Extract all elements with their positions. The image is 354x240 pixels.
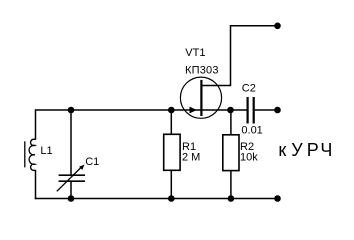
- wire: bottom ground rail: [35, 198, 278, 200]
- node: junction source / R2 / C2: [227, 107, 234, 114]
- terminal: mid output: [274, 107, 281, 114]
- terminal: top output: [274, 23, 281, 30]
- node: junction C1 bottom: [68, 195, 75, 202]
- wire: C1 branch upper: [70, 110, 72, 175]
- node: junction R2 bottom: [228, 195, 235, 202]
- wire: junction to C2: [231, 109, 247, 111]
- wire: left vertical, bottom segment: [35, 170, 37, 199]
- wire: C1 branch lower: [70, 181, 72, 198]
- svg-text:C1: C1: [85, 156, 99, 168]
- svg-text:10k: 10k: [240, 151, 258, 163]
- inductor L1: [25, 139, 36, 170]
- wire: drain lead to top output: [201, 26, 277, 86]
- capacitor C1 (variable): [57, 165, 85, 192]
- svg-text:2 M: 2 M: [182, 151, 200, 163]
- node: junction R1 top: [168, 107, 175, 114]
- svg-text:L1: L1: [40, 145, 52, 157]
- wire: C2 to mid output: [255, 109, 278, 111]
- svg-text:КП303: КП303: [185, 65, 219, 77]
- node: junction C1 top: [68, 107, 75, 114]
- svg-text:VT1: VT1: [185, 47, 205, 59]
- svg-text:C2: C2: [242, 83, 256, 95]
- terminal: bottom output: [274, 195, 281, 202]
- capacitor C2: [248, 97, 254, 124]
- resistor R1: [164, 110, 180, 199]
- resistor R2: [223, 110, 239, 199]
- node: junction R1 bottom: [168, 195, 175, 202]
- svg-text:0.01: 0.01: [241, 125, 262, 137]
- wire: main horizontal gate bus y=110: [36, 109, 231, 111]
- wire: left vertical, top segment: [35, 109, 37, 139]
- transistor VT1 (JFET КП303): [180, 77, 221, 118]
